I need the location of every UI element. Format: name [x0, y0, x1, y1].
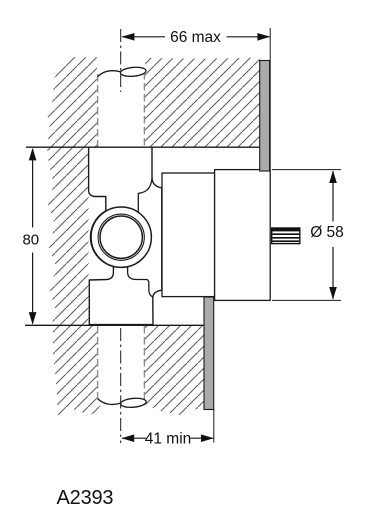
pipe bottom white column: [97, 326, 145, 406]
svg-text:Ø 58: Ø 58: [310, 224, 344, 241]
cartridge rear block: [162, 173, 215, 297]
valve seat circles: [91, 207, 151, 267]
pipe break bottom: [98, 399, 121, 405]
pipe top hidden walls: [97, 74, 99, 147]
svg-text:80: 80: [22, 232, 39, 249]
wall hatch left strip: [47, 147, 89, 325]
pipe bottom hidden walls: [97, 326, 99, 400]
finished wall strip top: [260, 61, 270, 172]
dim 80: [22, 148, 39, 325]
niche top line: [26, 146, 260, 148]
dim 66 max: [122, 28, 271, 169]
finished wall strip bottom: [204, 297, 214, 410]
centerline bottom segment: [120, 328, 122, 443]
svg-text:A2393: A2393: [57, 487, 114, 509]
cartridge front block: [215, 170, 271, 301]
valve body silhouette: [89, 147, 162, 324]
spindle: [271, 227, 301, 244]
dim 41 min: [121, 410, 213, 448]
body inner edges top: [138, 178, 152, 212]
dim diameter 58: [272, 170, 344, 301]
pipe break top: [98, 71, 121, 77]
svg-text:41 min: 41 min: [145, 430, 192, 447]
centerline top segment: [120, 29, 122, 92]
body inner edges bottom: [128, 267, 153, 298]
svg-text:66 max: 66 max: [170, 29, 221, 46]
niche bottom line: [25, 324, 204, 326]
wall hatch lower block: [53, 325, 204, 416]
pipe top white column: [97, 55, 145, 148]
wall hatch upper block: [47, 57, 260, 147]
